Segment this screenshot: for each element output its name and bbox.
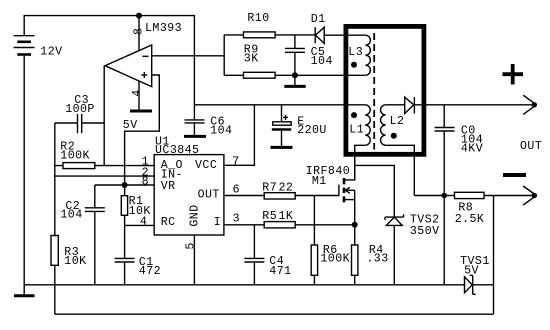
- svg-text:104: 104: [311, 55, 333, 68]
- svg-text:3K: 3K: [244, 53, 259, 66]
- svg-text:100K: 100K: [60, 150, 90, 163]
- svg-text:M1: M1: [312, 175, 327, 188]
- svg-text:1K: 1K: [279, 210, 294, 223]
- svg-text:GND: GND: [189, 204, 202, 226]
- svg-text:R10: R10: [247, 12, 269, 25]
- svg-text:D1: D1: [311, 13, 326, 26]
- svg-text:4: 4: [131, 89, 144, 96]
- svg-text:4: 4: [140, 216, 147, 229]
- svg-text:R5: R5: [262, 210, 277, 223]
- svg-text:100P: 100P: [65, 103, 95, 116]
- svg-text:100K: 100K: [320, 253, 350, 266]
- svg-text:L3: L3: [348, 46, 363, 59]
- svg-text:OUT: OUT: [198, 189, 220, 202]
- svg-text:VCC: VCC: [195, 159, 217, 172]
- svg-text:VR: VR: [161, 180, 176, 193]
- svg-text:L2: L2: [390, 115, 405, 128]
- svg-text:RC: RC: [161, 216, 176, 229]
- svg-text:8: 8: [133, 28, 146, 35]
- svg-text:350V: 350V: [410, 225, 440, 238]
- svg-text:5V: 5V: [123, 119, 138, 132]
- svg-text:OUT: OUT: [520, 140, 542, 153]
- svg-text:220U: 220U: [297, 124, 327, 137]
- svg-text:UC3845: UC3845: [155, 144, 199, 157]
- svg-text:6: 6: [233, 184, 240, 197]
- svg-text:R7: R7: [262, 181, 277, 194]
- svg-text:L1: L1: [349, 124, 364, 137]
- svg-text:2.5K: 2.5K: [455, 213, 485, 226]
- svg-text:3: 3: [233, 212, 240, 225]
- svg-text:472: 472: [139, 265, 161, 278]
- svg-text:8: 8: [142, 175, 149, 188]
- svg-text:5: 5: [184, 242, 197, 249]
- svg-text:I: I: [214, 216, 221, 229]
- svg-text:LM393: LM393: [145, 22, 182, 35]
- svg-text:4KV: 4KV: [461, 142, 483, 155]
- svg-text:471: 471: [269, 265, 291, 278]
- svg-text:22: 22: [279, 181, 294, 194]
- svg-text:104: 104: [60, 209, 82, 222]
- svg-text:5V: 5V: [464, 264, 479, 277]
- svg-text:104: 104: [210, 125, 232, 138]
- svg-text:12V: 12V: [40, 45, 62, 58]
- svg-text:7: 7: [232, 155, 239, 168]
- svg-text:.33: .33: [366, 253, 388, 266]
- svg-text:10K: 10K: [64, 255, 86, 268]
